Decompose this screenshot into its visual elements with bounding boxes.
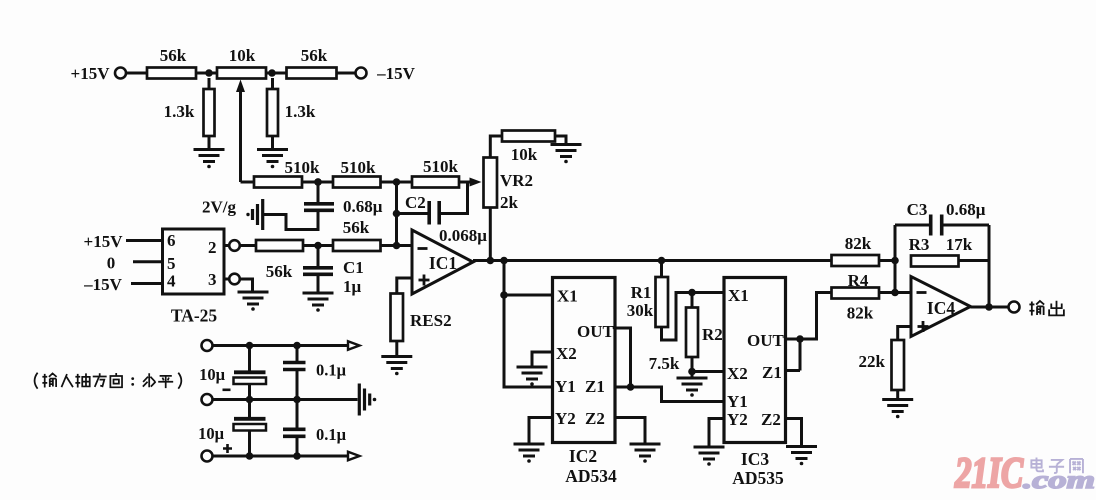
svg-text:56k: 56k: [301, 46, 328, 65]
node: [393, 210, 401, 218]
svg-text:56k: 56k: [266, 262, 293, 281]
wire: [241, 181, 255, 184]
watermark 21IC.com: [954, 450, 1095, 497]
ground: [238, 292, 269, 311]
svg-text:Y1: Y1: [555, 377, 576, 396]
node: [268, 69, 276, 77]
node 0 input: [107, 254, 163, 273]
svg-text:Y1: Y1: [727, 392, 748, 411]
wire feedback left vertical: [894, 225, 897, 293]
wire: [490, 136, 502, 158]
node: [500, 291, 508, 299]
op-amp IC1: [412, 230, 473, 294]
ground: [194, 150, 225, 169]
wire top row: [213, 344, 349, 347]
wire Z2 to ground: [786, 419, 802, 446]
svg-text:X2: X2: [556, 344, 577, 363]
wire middle row: [213, 398, 358, 401]
node: [246, 342, 254, 350]
wire wiper of 10k: [236, 80, 245, 183]
terminal +15V: [71, 64, 126, 83]
ground (rotated, 2V/g reference): [253, 199, 263, 230]
capacitor C3 0.68u: [895, 200, 989, 236]
node +15V input: [84, 232, 163, 251]
svg-text:0.068μ: 0.068μ: [439, 226, 487, 245]
resistor 22k: [859, 340, 904, 399]
svg-text:R2: R2: [702, 325, 723, 344]
svg-text:3: 3: [208, 270, 217, 289]
ground (rotated right): [359, 384, 376, 416]
svg-text:–15V: –15V: [376, 64, 416, 83]
node: [627, 383, 635, 391]
wire output: [971, 306, 1009, 309]
svg-text:AD535: AD535: [732, 468, 784, 488]
node: [314, 178, 322, 186]
node: [658, 257, 666, 265]
svg-text:C2: C2: [405, 193, 426, 212]
svg-text:30k: 30k: [627, 301, 654, 320]
svg-text:X1: X1: [557, 287, 578, 306]
node: [246, 396, 254, 404]
svg-text:OUT: OUT: [747, 331, 785, 350]
svg-text:1.3k: 1.3k: [164, 102, 195, 121]
resistor R3 17k: [909, 235, 989, 267]
svg-text:10μ: 10μ: [198, 424, 225, 443]
svg-text:0.1μ: 0.1μ: [316, 361, 347, 380]
svg-text:X1: X1: [728, 286, 749, 305]
svg-text:1μ: 1μ: [343, 277, 362, 296]
IC U2 multiplier AD534: [553, 278, 618, 487]
svg-text:Z2: Z2: [585, 409, 605, 428]
ground: [257, 150, 288, 169]
svg-text:10μ: 10μ: [199, 365, 226, 384]
resistor 1.3k (left): [164, 78, 215, 149]
wire vertical junction column: [395, 182, 398, 246]
svg-text:4: 4: [167, 272, 176, 291]
svg-text:10k: 10k: [229, 46, 256, 65]
capacitor C1 1u: [303, 246, 364, 297]
wire arrow into VR2 wiper: [459, 178, 482, 187]
svg-text:82k: 82k: [847, 304, 874, 323]
node: [205, 69, 213, 77]
resistor 82k (top): [832, 234, 880, 266]
svg-text:6: 6: [167, 231, 176, 250]
svg-text:21IC: 21IC: [954, 450, 1024, 497]
svg-text:R4: R4: [848, 271, 869, 290]
svg-text:C3: C3: [907, 200, 928, 219]
wire: [441, 182, 468, 214]
svg-text:X2: X2: [727, 364, 748, 383]
svg-text:0.68μ: 0.68μ: [946, 200, 986, 219]
wire arrow out bottom: [348, 452, 360, 461]
resistor RES2: [391, 294, 452, 357]
svg-text:C1: C1: [343, 258, 364, 277]
resistor 510k (first): [254, 158, 320, 188]
potentiometer 10k: [217, 46, 266, 79]
svg-text:Z1: Z1: [762, 363, 782, 382]
svg-text:AD534: AD534: [565, 466, 617, 486]
resistor 1.3k (right): [267, 78, 316, 149]
ground: [381, 357, 412, 376]
svg-text:IC1: IC1: [429, 253, 457, 273]
svg-text:Z2: Z2: [761, 410, 781, 429]
pin 2 terminal: [224, 240, 256, 251]
node: [393, 242, 401, 250]
resistor 56k (right): [287, 46, 337, 79]
svg-text:2: 2: [208, 238, 217, 257]
svg-text:17k: 17k: [946, 235, 973, 254]
wire noninverting input: [397, 278, 412, 294]
wire VR2 bottom to output row: [489, 208, 492, 261]
svg-text:5: 5: [167, 254, 176, 273]
svg-text:0: 0: [107, 254, 116, 273]
wire X2 to ground: [532, 352, 553, 366]
wire IC1 output row: [473, 259, 832, 262]
svg-text:2k: 2k: [500, 193, 519, 212]
svg-text:2V/g: 2V/g: [202, 198, 237, 217]
terminal input middle: [202, 394, 213, 405]
wire Z2 to ground: [615, 418, 645, 444]
node: [500, 257, 508, 265]
node caption (input axis direction: horizontal): [35, 373, 182, 389]
node -15V input: [83, 275, 162, 294]
resistor R2 7.5k: [649, 293, 723, 378]
svg-text:RES2: RES2: [410, 311, 452, 330]
resistor 10k (top): [502, 131, 555, 165]
resistor 56k (labeled above): [333, 218, 381, 251]
terminal output: [1009, 302, 1020, 313]
node: [314, 178, 322, 186]
resistor 56k (pin2 row, labeled below): [256, 240, 303, 281]
node: [487, 257, 495, 265]
IC U3 multiplier AD535: [724, 278, 786, 489]
node: [688, 289, 696, 297]
capacitor C2 0.068u: [397, 193, 488, 245]
svg-text:IC4: IC4: [927, 298, 955, 318]
node label output (Chinese): [1029, 301, 1063, 316]
wire X1 stub: [504, 294, 553, 297]
node 2V/g source label: [202, 198, 250, 217]
svg-text:56k: 56k: [160, 46, 187, 65]
node: [796, 335, 804, 343]
capacitor 10u (upper, polarized): [199, 346, 266, 400]
node: [891, 289, 899, 297]
ground: [677, 378, 708, 397]
svg-text:R3: R3: [909, 235, 930, 254]
ground: [517, 367, 548, 386]
wire: [381, 181, 413, 184]
node: [293, 452, 301, 460]
capacitor 0.68u: [304, 182, 383, 216]
svg-text:IC3: IC3: [741, 449, 769, 469]
ground: [514, 444, 545, 463]
ground: [551, 145, 582, 164]
svg-text:0.1μ: 0.1μ: [316, 425, 347, 444]
wire OUT and Z1 tie: [786, 293, 832, 371]
wire X2 row: [692, 370, 724, 373]
terminal input bottom: [202, 451, 213, 462]
wire Y2 to ground: [709, 419, 724, 447]
resistor R1 30k: [627, 261, 668, 328]
resistor 510k (second): [333, 158, 381, 188]
svg-text:510k: 510k: [423, 157, 459, 176]
op-amp IC4: [911, 277, 971, 337]
wire: [263, 211, 318, 230]
wire: [555, 136, 566, 144]
wire Y2 to ground: [529, 418, 553, 444]
wire: [196, 72, 217, 75]
svg-text:0.68μ: 0.68μ: [343, 197, 383, 216]
svg-text:82k: 82k: [845, 234, 872, 253]
wire: [879, 259, 895, 262]
ground: [694, 447, 725, 466]
wire R1 bottom jog to X1 row: [662, 293, 725, 341]
wire: [302, 181, 333, 184]
wire R4 to inverting input: [879, 291, 911, 294]
node: [985, 303, 993, 311]
ground: [630, 444, 661, 463]
pin 3 terminal: [224, 274, 253, 291]
svg-text:Y2: Y2: [555, 409, 576, 428]
node: [688, 368, 696, 376]
capacitor 0.1u (lower): [283, 400, 347, 457]
wire OUT to Z1: [615, 328, 724, 402]
node: [293, 342, 301, 350]
node: [314, 242, 322, 250]
svg-text:.com: .com: [1023, 467, 1095, 494]
resistor 56k (left): [147, 46, 196, 79]
wire: [381, 244, 413, 247]
svg-text:R1: R1: [631, 283, 652, 302]
wire noninverting to 22k: [898, 327, 911, 341]
svg-text:+15V: +15V: [71, 64, 111, 83]
svg-text:Z1: Z1: [585, 377, 605, 396]
terminal -15V: [356, 64, 416, 83]
svg-text:510k: 510k: [285, 158, 321, 177]
svg-text:+15V: +15V: [84, 232, 124, 251]
svg-text:56k: 56k: [343, 218, 370, 237]
node: [246, 452, 254, 460]
ground: [786, 447, 817, 466]
svg-text:–15V: –15V: [83, 275, 123, 294]
svg-text:Y2: Y2: [727, 410, 748, 429]
potentiometer VR2 2k: [484, 158, 534, 213]
svg-text:10k: 10k: [511, 145, 538, 164]
wire branch to IC2: [504, 261, 553, 388]
svg-text:22k: 22k: [859, 352, 886, 371]
svg-text:OUT: OUT: [577, 322, 615, 341]
node: [393, 178, 401, 186]
wire arrow out top: [348, 341, 360, 350]
wire: [337, 72, 356, 75]
resistor R4 82k: [832, 271, 880, 323]
capacitor 0.1u (upper): [283, 346, 347, 400]
node: [891, 257, 899, 265]
node: [293, 396, 301, 404]
svg-text:TA-25: TA-25: [171, 306, 218, 326]
svg-text:IC2: IC2: [569, 446, 597, 466]
wire: [266, 72, 287, 75]
IC TA-25: [163, 229, 225, 326]
wire: [127, 72, 148, 75]
wire bottom row: [213, 455, 349, 458]
wire feedback right vertical: [988, 225, 991, 307]
ground: [303, 293, 334, 312]
resistor 510k (third): [412, 157, 459, 188]
svg-text:VR2: VR2: [500, 171, 533, 190]
terminal input top: [202, 340, 213, 351]
svg-text:7.5k: 7.5k: [649, 354, 680, 373]
svg-text:510k: 510k: [341, 158, 377, 177]
svg-text:1.3k: 1.3k: [285, 102, 316, 121]
wire: [303, 244, 333, 247]
capacitor 10u (lower, polarized): [198, 400, 266, 457]
ground: [882, 400, 913, 419]
